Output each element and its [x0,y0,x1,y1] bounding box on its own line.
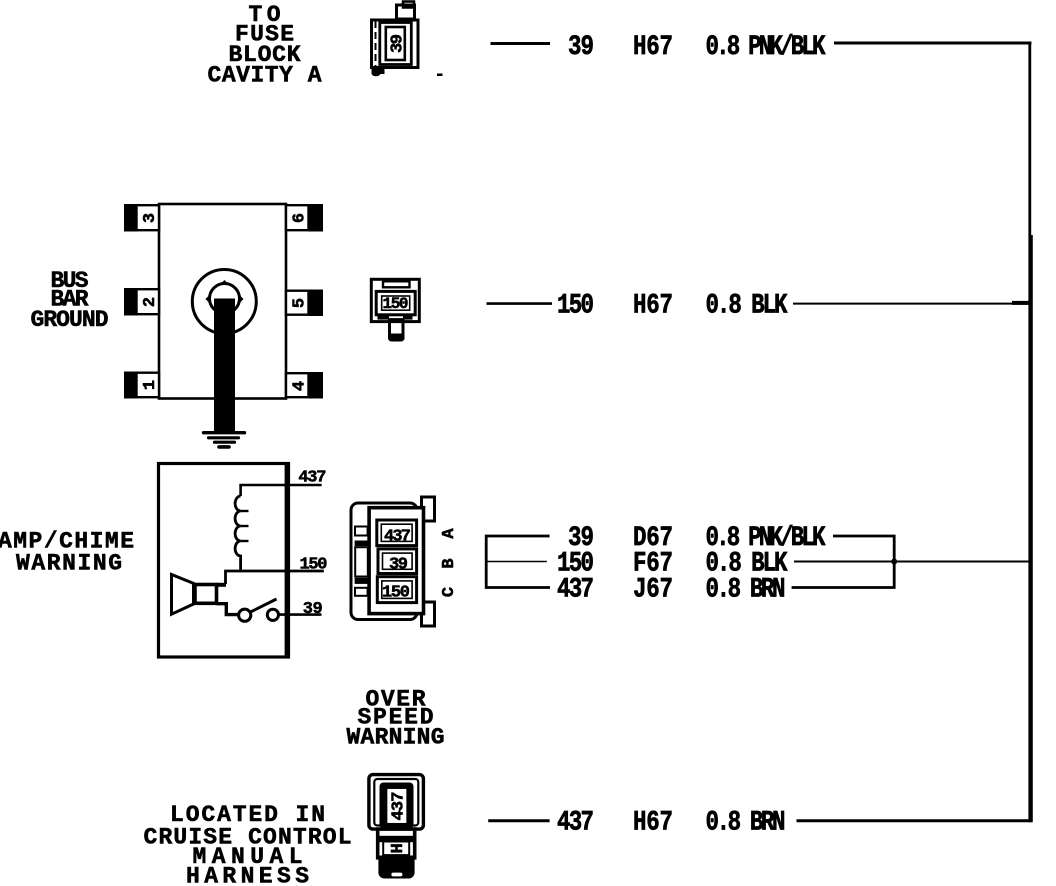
C3 index tab bottom [422,602,435,626]
C1 foot [372,68,385,76]
ground stud: inner ring [210,284,240,314]
C4 cavity H [383,842,409,856]
svg-text:437: 437 [298,469,326,488]
junction dot [891,559,897,565]
C3 latch detail [355,527,368,596]
terminal tab 6 [286,204,323,232]
wire row2 right segment [793,303,1031,305]
C3 cavity 39 [378,549,417,575]
C4 black band [380,836,414,842]
wire row5 labels: 437 J67 0.8 BRN [557,573,786,605]
svg-text:150: 150 [383,295,409,313]
ground stud: diamond [205,280,243,318]
amp/chime module box [159,464,289,658]
svg-text:0.8 BRN: 0.8 BRN [706,807,786,839]
wire row1 labels: 39 H67 0.8 PNK/BLK [568,31,826,63]
wire row3 labels: 39 D67 0.8 PNK/BLK [568,522,826,554]
label AMP/CHIME WARNING [0,529,134,577]
row4 left stub (thin) [486,561,547,563]
bus bar ground body [159,204,286,399]
C3 inner shell [369,508,423,614]
svg-text:437: 437 [557,573,594,605]
ground symbol [204,433,245,447]
stray mark [437,74,443,77]
svg-text:3: 3 [141,213,160,223]
svg-text:0.8 BRN: 0.8 BRN [706,573,786,605]
C4 black surround [380,783,414,829]
svg-text:H67: H67 [633,807,673,839]
C4 bottom plug [378,856,414,879]
C3 cavity 437 [377,520,417,547]
terminal tab 2 [124,288,160,316]
row4 right segment to bus [794,561,1031,563]
coil ticks [241,511,249,541]
svg-text:150: 150 [557,289,594,321]
ground stud: outer circle [192,270,256,334]
rows 3-5 left bracket [486,536,550,588]
svg-text:WARNING: WARNING [16,551,122,577]
connector C2 ring terminal 150 [371,279,419,321]
svg-text:A: A [440,528,459,539]
svg-text:2: 2 [141,297,160,307]
svg-text:GROUND: GROUND [31,307,109,333]
wire 39 out [279,613,322,616]
wire 437 inside and out [241,485,322,496]
svg-text:H67: H67 [633,31,673,63]
terminal tab 3 [124,204,160,232]
svg-text:B: B [440,558,459,568]
switch blade [251,599,277,612]
wire row6 labels: 437 H67 0.8 BRN [557,807,786,839]
wire 150 inside and out [226,571,324,584]
svg-text:39: 39 [303,600,323,619]
row3 right segment to bracket [792,536,895,588]
connector C3 body [351,503,417,620]
svg-text:CAVITY A: CAVITY A [208,63,322,89]
svg-text:C: C [440,587,459,597]
C2 lower fills [378,315,390,320]
svg-text:5: 5 [291,298,310,308]
wire row1 right segment [834,42,1031,45]
wire row4 labels: 150 F67 0.8 BLK [557,547,788,579]
wire row2 left stub [487,302,553,305]
ground strap (thick bar) [214,299,235,434]
speaker horn [172,575,194,615]
svg-text:4: 4 [291,381,310,391]
wire row6 left stub [488,819,549,822]
C4 neck [378,829,415,858]
wire row2 labels: 150 H67 0.8 BLK [557,289,788,321]
coil [235,496,241,571]
svg-text:150: 150 [382,583,410,602]
terminal tab 5 [286,290,323,317]
label TO FUSE BLOCK CAVITY A [208,2,322,89]
switch contact right [267,609,278,620]
svg-text:39: 39 [389,34,408,53]
svg-text:H67: H67 [633,289,673,321]
svg-text:437: 437 [390,792,409,821]
main bus vertical [1028,42,1031,236]
C4 cavity 437 [387,788,408,824]
C2 stem [390,320,404,338]
svg-text:1: 1 [141,380,160,390]
link bars to switch [217,583,227,587]
switch contact left [239,609,251,621]
svg-text:39: 39 [568,31,594,63]
svg-text:H: H [389,843,408,853]
svg-text:J67: J67 [633,573,673,605]
speaker driver [195,585,217,604]
terminal tab 4 [286,372,323,399]
svg-text:0.8 BLK: 0.8 BLK [706,289,789,321]
svg-text:CRUISE CONTROL: CRUISE CONTROL [144,825,352,851]
svg-text:HARNESS: HARNESS [186,864,309,886]
svg-text:150: 150 [300,555,328,574]
connector C4 over speed warning [369,775,424,830]
wire row6 right segment [797,819,1032,822]
svg-text:WARNING: WARNING [347,725,445,751]
terminal tab 1 [124,372,160,399]
C3 index tab top [422,497,435,521]
label OVER SPEED WARNING [347,687,445,751]
svg-text:0.8 PNK/BLK: 0.8 PNK/BLK [706,31,827,63]
C3 cavity 150 [377,577,416,603]
label LOCATED IN CRUISE CONTROL MANUAL HARNESS [144,802,352,886]
wire row1 left stub [491,42,551,45]
svg-text:437: 437 [384,528,411,547]
connector C1 to fuse block, cavity 39 [372,2,419,68]
svg-text:6: 6 [291,213,310,223]
label BUS BAR GROUND [31,268,109,333]
svg-text:437: 437 [557,807,594,839]
svg-text:39: 39 [389,556,408,575]
